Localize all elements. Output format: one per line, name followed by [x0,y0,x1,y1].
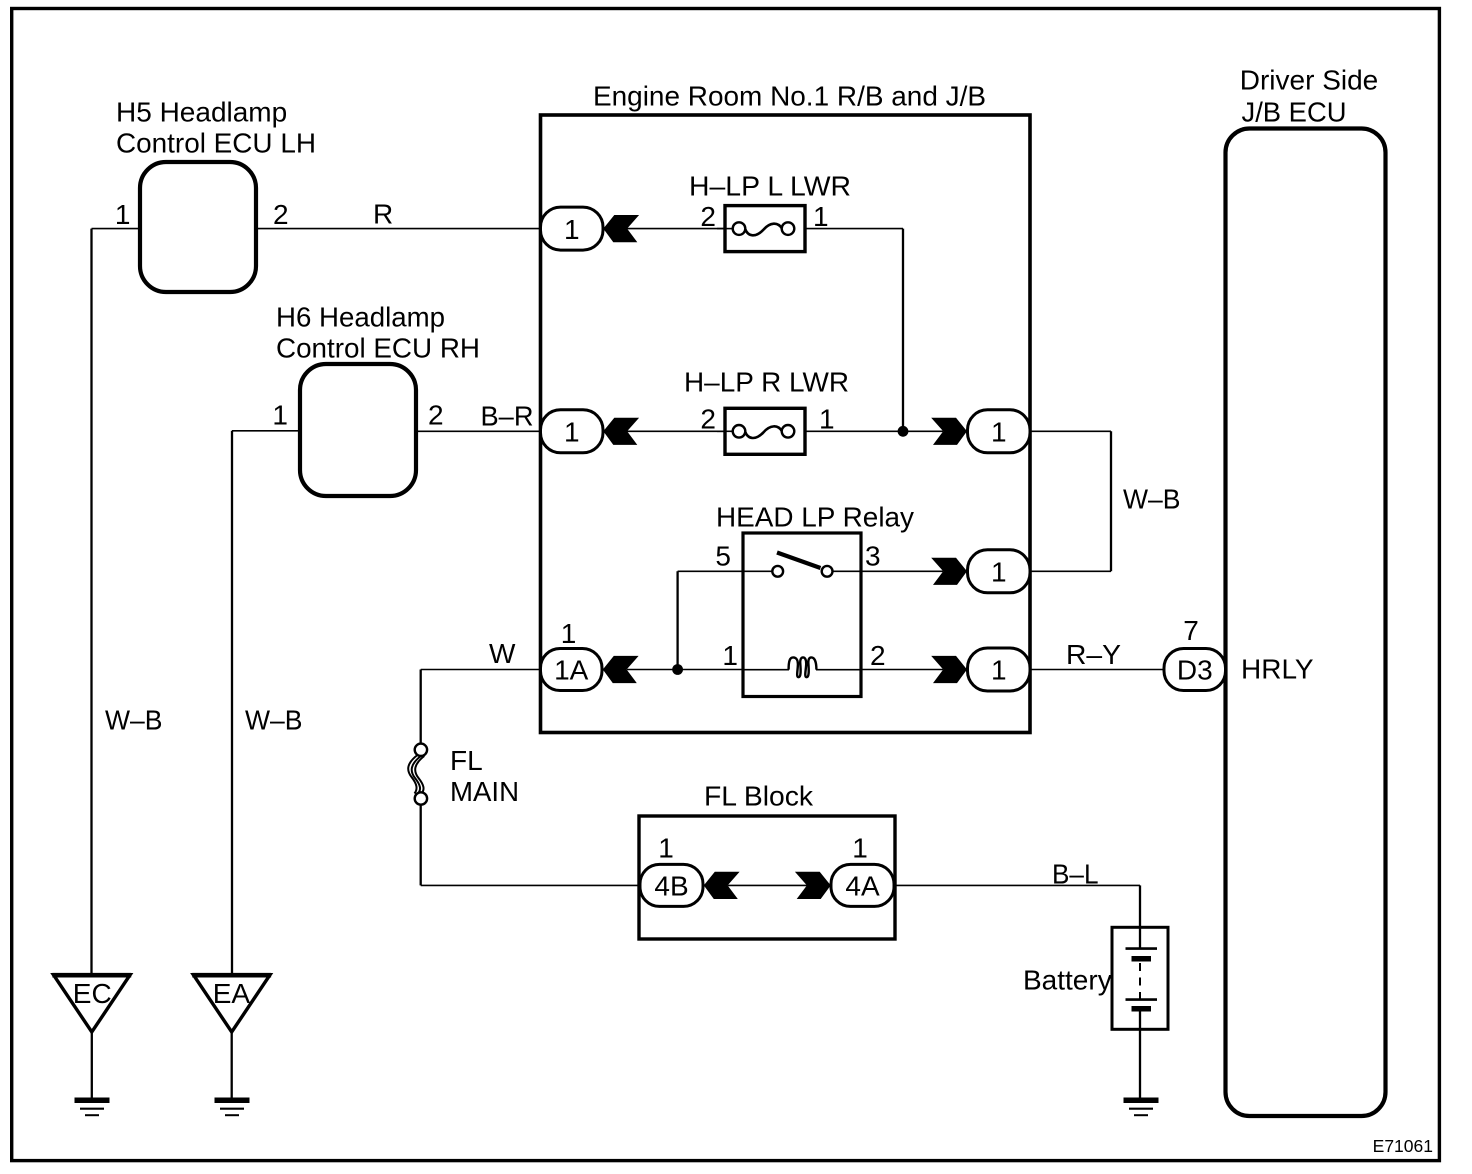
fuse H-LP L LWR [717,206,805,252]
relay pin 3 label [865,541,881,572]
svg-text:EC: EC [73,978,112,1009]
fuse H-LP L LWR pin 2 label [700,201,716,232]
connector oval 1 (row1 left) [541,207,604,250]
Engine Room No.1 R/B and J/B title [593,81,986,112]
svg-text:1: 1 [115,199,131,230]
wire relay switch internal right [833,570,862,572]
svg-text:J/B ECU: J/B ECU [1242,97,1347,128]
svg-text:Control ECU RH: Control ECU RH [276,333,480,364]
wire pin5 drop to junction [676,571,678,669]
ground triangle EC [52,975,131,1032]
H5 pin 1 label [115,199,131,230]
connector arrow (row2, left-pointing) [603,418,639,445]
svg-text:1: 1 [813,201,829,232]
connector arrow (row4, left-pointing) [603,656,639,683]
FL MAIN label [450,745,519,807]
svg-text:4A: 4A [845,871,880,902]
wire relay pin3 to arrow [861,570,943,572]
wire B-L from 4A to battery drop [894,884,1140,886]
battery box [1112,927,1168,1029]
svg-text:HEAD LP Relay: HEAD LP Relay [716,502,914,533]
svg-text:W–B: W–B [245,705,303,736]
fuse H-LP L LWR label [689,171,851,202]
svg-text:1: 1 [722,640,738,671]
wire 4B to 4A [728,884,807,886]
svg-text:2: 2 [700,404,716,435]
wire EA triangle to ground [231,1032,233,1098]
connector oval 1 (row2 left) [541,410,604,453]
wire label B-L [1052,859,1099,890]
wire label W-B right [1123,484,1181,515]
svg-text:W–B: W–B [105,705,163,736]
svg-text:1: 1 [564,214,580,245]
svg-text:1: 1 [561,618,577,649]
HEAD LP Relay title [716,502,914,533]
connector oval 1A [541,649,603,691]
wire EC triangle to ground [91,1032,93,1098]
svg-text:7: 7 [1183,615,1199,646]
svg-text:4B: 4B [654,871,688,902]
H6 pin 2 label [428,400,444,431]
svg-text:2: 2 [870,640,886,671]
svg-text:1: 1 [991,557,1007,588]
connector arrow (4A, right-pointing) [795,872,831,899]
ECU H6 Headlamp Control ECU RH box [300,364,416,496]
wire label W-B (EC) [105,705,163,736]
wire label R-Y [1066,639,1121,670]
connector oval 1 (row3 right) [968,550,1031,593]
wire W-B vertical right [1110,431,1112,571]
svg-text:1: 1 [564,417,580,448]
svg-text:R–Y: R–Y [1066,639,1121,670]
fuse H-LP R LWR label [684,367,849,398]
svg-text:H–LP R LWR: H–LP R LWR [684,367,849,398]
svg-text:W: W [489,638,516,669]
svg-text:1: 1 [852,833,868,864]
connector arrow (4B, left-pointing) [704,872,740,899]
relay switch blade [777,553,821,569]
connector oval 1 (row2 right) [968,410,1031,453]
relay coil [789,657,817,677]
wire label B-R [481,401,534,432]
HRLY label [1241,654,1314,685]
svg-text:Control ECU LH: Control ECU LH [116,128,316,159]
wire fuse1 pin1 right [805,228,903,230]
svg-text:E71061: E71061 [1373,1136,1433,1156]
connector 4A pin 1 label [852,833,868,864]
svg-text:H6 Headlamp: H6 Headlamp [276,302,445,333]
figure number E71061 [1373,1136,1433,1156]
junction dot row2 [898,426,909,437]
svg-text:1: 1 [658,833,674,864]
fusible link FL MAIN [408,744,427,805]
svg-text:3: 3 [865,541,881,572]
svg-text:D3: D3 [1177,655,1213,686]
wire H6 pin1 to node EA drop [232,430,300,432]
wire label W [489,638,516,669]
wire W from 1A to FL MAIN drop [421,669,541,671]
wire label R [373,199,393,230]
svg-text:Engine Room No.1 R/B and J/B: Engine Room No.1 R/B and J/B [593,81,986,112]
svg-text:1A: 1A [554,655,589,686]
svg-text:1: 1 [272,400,288,431]
connector oval D3 [1164,649,1226,691]
wire to FL Block 4B [421,884,641,886]
wire oval row2 to W-B drop [1030,430,1111,432]
ECU H5 Headlamp Control ECU LH box [140,162,256,292]
svg-text:FL Block: FL Block [704,781,814,812]
connector oval 4B [640,864,703,906]
wire relay switch internal left [743,570,772,572]
wire FL MAIN to FL Block row [420,805,422,886]
wire relay pin2 to arrow [861,669,943,671]
Engine Room No.1 R/B and J/B box [541,115,1031,733]
wire oval row3 to W-B drop [1030,570,1111,572]
relay pin 1 label [722,640,738,671]
ground (EC) [75,1100,110,1115]
svg-text:1: 1 [819,404,835,435]
connector arrow (row1, left-pointing) [603,215,639,242]
svg-text:1: 1 [991,417,1007,448]
H5 pin 2 label [273,199,289,230]
ground triangle EA [192,975,271,1032]
svg-text:B–R: B–R [481,401,534,432]
fuse H-LP R LWR pin 1 label [819,404,835,435]
battery internal dashed line [1139,963,1141,999]
wire B-L vertical to battery [1139,885,1141,948]
wire W-B left vertical from H5 [90,229,92,975]
wire relay coil internal [743,669,861,671]
wire battery to ground [1139,1009,1141,1098]
H6 pin 1 label [272,400,288,431]
H5 label [116,97,316,159]
svg-text:1: 1 [991,655,1007,686]
wire W-B left vertical from H6 [231,431,233,975]
svg-text:H5 Headlamp: H5 Headlamp [116,97,287,128]
connector oval 4A [831,864,894,906]
svg-text:2: 2 [700,201,716,232]
svg-text:B–L: B–L [1052,859,1099,890]
svg-text:MAIN: MAIN [450,776,519,807]
connector arrow (row3, right-pointing) [931,558,967,585]
wire relay pin5 left [678,570,743,572]
HEAD LP Relay box [743,533,861,697]
relay pin 2 label [870,640,886,671]
wire vertical fuse1 to junction [902,229,904,432]
FL Block title [704,781,814,812]
svg-text:W–B: W–B [1123,484,1181,515]
connector D3 pin 7 label [1183,615,1199,646]
connector 4B pin 1 label [658,833,674,864]
ground (EA) [215,1100,250,1115]
svg-text:R: R [373,199,393,230]
svg-text:FL: FL [450,745,483,776]
wire arrow to fuse H-LP L LWR [627,228,725,230]
Driver Side J/B ECU title [1240,65,1378,128]
connector arrow (row4, right-pointing) [931,656,967,683]
svg-text:EA: EA [213,978,251,1009]
wire arrow to relay pin1 [627,669,743,671]
fuse H-LP R LWR pin 2 label [700,404,716,435]
relay pin 5 label [715,541,731,572]
connector oval 1 (row4 right) [968,648,1031,691]
Driver Side J/B ECU box [1226,129,1386,1117]
svg-text:2: 2 [428,400,444,431]
svg-text:HRLY: HRLY [1241,654,1314,685]
wire B-R from H6 pin2 to connector [416,430,541,432]
FL Block box [639,816,895,939]
connector oval 1A pin label [561,618,577,649]
relay switch contact circles [772,566,832,577]
battery label [1023,965,1112,996]
wire R-Y from oval to D3 [1030,669,1164,671]
svg-text:H–LP L LWR: H–LP L LWR [689,171,851,202]
ground (battery) [1124,1100,1159,1115]
wire label W-B (EA) [245,705,303,736]
wire fuse2 pin1 to arrow [805,430,943,432]
svg-text:Battery: Battery [1023,965,1112,996]
svg-text:Driver Side: Driver Side [1240,65,1378,96]
wire arrow to fuse H-LP R LWR [627,430,725,432]
battery plates [1126,949,1158,1009]
svg-text:2: 2 [273,199,289,230]
junction dot row4 [672,664,683,675]
wire W vertical to FL MAIN [420,670,422,745]
svg-text:5: 5 [715,541,731,572]
connector arrow (row2, right-pointing) [931,418,967,445]
wire R from H5 pin2 to connector [256,228,541,230]
wire H5 pin1 to node EC drop [92,228,141,230]
fuse H-LP R LWR [717,408,805,454]
H6 label [276,302,480,364]
fuse H-LP L LWR pin 1 label [813,201,829,232]
